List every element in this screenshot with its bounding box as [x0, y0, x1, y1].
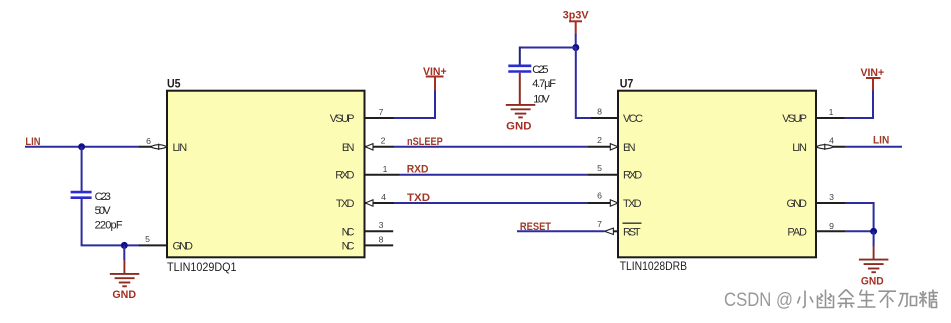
svg-text:GND: GND	[861, 276, 884, 288]
power VIN+ right	[861, 67, 885, 91]
svg-text:4: 4	[381, 192, 386, 202]
U5 pin 3 NC stub	[365, 220, 394, 231]
U5 pin 2 EN stub	[365, 136, 394, 147]
U7 pin 5 RXD stub	[588, 163, 618, 175]
svg-text:VCC: VCC	[623, 113, 643, 125]
svg-text:U7: U7	[620, 77, 634, 91]
wire LIN right net	[845, 146, 902, 148]
svg-text:LIN: LIN	[25, 136, 40, 148]
U7 pin 7 arrow	[604, 228, 613, 234]
wire 3p3V junction down to VCC	[576, 48, 592, 119]
wire nSLEEP net	[394, 146, 588, 148]
svg-text:4.7µF: 4.7µF	[532, 78, 556, 90]
svg-text:9: 9	[829, 221, 834, 231]
svg-text:2: 2	[597, 135, 602, 145]
svg-text:VSUP: VSUP	[782, 113, 807, 125]
wire 3p3V to junction	[575, 34, 577, 48]
svg-text:LIN: LIN	[792, 142, 807, 154]
U5 pin 6 bidirectional arrow	[151, 144, 168, 150]
wire PAD junction down	[873, 231, 875, 246]
node junction 3p3V	[572, 44, 579, 51]
svg-text:nSLEEP: nSLEEP	[407, 136, 443, 148]
svg-text:VSUP: VSUP	[330, 113, 355, 125]
svg-text:TLIN1029DQ1: TLIN1029DQ1	[167, 260, 237, 274]
svg-text:7: 7	[379, 107, 384, 117]
wire RESET net	[517, 230, 604, 232]
capacitor C23	[71, 191, 123, 232]
ground symbol middle	[506, 105, 536, 118]
svg-text:NC: NC	[342, 226, 355, 238]
svg-text:CSDN @: CSDN @	[724, 289, 793, 311]
U5 pin 4 arrow	[365, 200, 373, 206]
svg-text:1: 1	[383, 164, 388, 174]
svg-text:RXD: RXD	[335, 170, 354, 182]
svg-text:3: 3	[379, 220, 384, 230]
svg-text:U5: U5	[167, 77, 181, 91]
U7 pin 6 arrow	[610, 200, 618, 206]
wire PAD to junction	[845, 230, 874, 232]
svg-text:TLIN1028DRB: TLIN1028DRB	[620, 259, 687, 273]
ground symbol left	[110, 259, 140, 286]
U7 pin 4 bidirectional arrow	[816, 144, 834, 150]
svg-text:TXD: TXD	[336, 198, 355, 210]
IC U5 body	[167, 77, 365, 274]
svg-text:VIN+: VIN+	[861, 67, 885, 79]
U7 RST overline	[623, 222, 642, 224]
svg-text:GND: GND	[506, 121, 531, 133]
svg-text:8: 8	[597, 107, 602, 117]
svg-text:RESET: RESET	[520, 221, 551, 233]
svg-text:10V: 10V	[533, 94, 550, 106]
U7 pin 2 EN stub	[588, 135, 612, 147]
U7 pin 3 GND stub	[816, 192, 845, 203]
node junction GND branch	[121, 242, 128, 249]
svg-text:8: 8	[379, 235, 384, 245]
svg-text:C25: C25	[532, 64, 548, 76]
svg-text:LIN: LIN	[173, 142, 188, 154]
U5 pin 7 VSUP stub	[365, 107, 395, 118]
svg-text:1: 1	[829, 107, 834, 117]
svg-text:2: 2	[381, 136, 386, 146]
power VIN+ left	[423, 66, 447, 91]
wire junction to C25	[520, 47, 576, 49]
U5 pin 1 RXD stub	[365, 164, 400, 175]
U5 pin 2 arrow	[365, 144, 373, 150]
wire C25 top lead	[519, 47, 521, 65]
U5 pin 4 TXD stub	[365, 192, 394, 203]
svg-text:RXD: RXD	[407, 164, 429, 176]
svg-text:LIN: LIN	[873, 134, 889, 146]
U7 pin 9 PAD stub	[816, 221, 845, 232]
svg-text:EN: EN	[342, 142, 355, 154]
U5 pin 8 NC stub	[365, 235, 394, 246]
wire C25 bottom lead	[519, 73, 521, 105]
wire C23 to GND pin	[81, 244, 140, 246]
svg-text:3: 3	[829, 192, 834, 202]
svg-text:GND: GND	[787, 198, 808, 210]
node junction LIN/C23	[78, 143, 85, 150]
svg-text:C23: C23	[95, 191, 111, 203]
svg-text:4: 4	[829, 136, 834, 146]
U5 pin 5 GND stub	[139, 234, 167, 245]
svg-text:GND: GND	[173, 240, 194, 252]
U7 pin 8 VCC stub	[591, 107, 618, 118]
U7 pin labels	[623, 113, 807, 238]
svg-text:50V: 50V	[95, 205, 112, 217]
wire VSUP to VIN+ right	[845, 90, 874, 119]
svg-text:NC: NC	[342, 240, 355, 252]
wire C23 bottom lead	[81, 199, 83, 246]
svg-text:RXD: RXD	[623, 170, 642, 182]
svg-text:GND: GND	[112, 289, 136, 301]
svg-text:VIN+: VIN+	[423, 66, 447, 78]
wire TXD net	[394, 202, 588, 204]
U7 pin 2 arrow	[610, 144, 618, 150]
svg-text:5: 5	[145, 234, 150, 244]
svg-text:TXD: TXD	[623, 198, 642, 210]
wire LIN left net	[25, 146, 140, 148]
power 3p3V	[563, 10, 589, 35]
node junction PAD/GND	[870, 228, 877, 235]
wire GND to PAD junction	[845, 203, 874, 231]
svg-text:3p3V: 3p3V	[563, 10, 589, 22]
U7 pin 1 VSUP stub	[816, 107, 845, 118]
wire C23 top lead	[81, 147, 83, 191]
svg-text:TXD: TXD	[407, 192, 430, 204]
svg-text:7: 7	[597, 219, 602, 229]
capacitor C25	[508, 64, 556, 106]
U7 pin 6 TXD stub	[588, 191, 612, 204]
svg-text:5: 5	[597, 163, 602, 173]
U5 pin labels	[173, 113, 355, 252]
U7 pin 4 LIN stub	[816, 136, 845, 147]
ground symbol right	[859, 246, 889, 272]
svg-text:220pF: 220pF	[95, 219, 123, 231]
wire RXD net	[400, 174, 589, 176]
svg-text:6: 6	[597, 191, 602, 201]
wire GND drop	[123, 245, 125, 260]
watermark CJK glyphs	[798, 290, 939, 309]
wire VSUP to VIN+	[394, 90, 436, 119]
IC U7 body	[618, 77, 816, 273]
U7 pin 7 RST stub	[597, 219, 618, 232]
svg-text:EN: EN	[623, 142, 636, 154]
svg-text:PAD: PAD	[787, 226, 807, 238]
svg-text:RST: RST	[623, 226, 641, 238]
U5 pin 6 LIN stub	[139, 136, 167, 147]
svg-text:6: 6	[146, 136, 151, 146]
